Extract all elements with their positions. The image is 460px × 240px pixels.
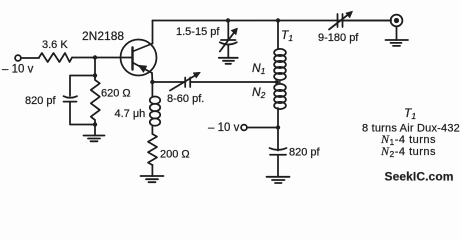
ground under 200	[151, 165, 153, 176]
wire cap to bottom	[70, 102, 95, 125]
ground under 620	[94, 125, 96, 135]
branch 1.5-15pf from rail	[227, 21, 229, 40]
inductor 4.7uh	[150, 97, 160, 126]
capacitor 820pf left	[64, 96, 78, 101]
wire branch to 820pf	[70, 76, 95, 97]
wire output to ground	[396, 26, 398, 40]
wire 820pf to ground	[277, 155, 279, 177]
output terminal	[391, 15, 403, 27]
wire inductor to 200ohm	[151, 126, 153, 134]
node branch junction	[93, 73, 97, 77]
capacitor 8-60pf	[185, 78, 190, 88]
transformer T1 stem top	[277, 21, 279, 50]
ground under 1.5-15pf	[219, 58, 238, 64]
svg-text:820 pf: 820 pf	[25, 95, 57, 107]
capacitor 820pf right	[270, 148, 287, 150]
svg-text:4.7 μh: 4.7 μh	[115, 108, 146, 120]
wire to -10v terminal	[247, 127, 278, 129]
wire 1.5-15pf to ground	[227, 45, 229, 58]
collector wire up	[152, 21, 154, 44]
top rail	[153, 20, 392, 22]
node bottom join	[93, 122, 97, 126]
resistor 620 ohm	[91, 76, 100, 126]
ground under output	[386, 40, 409, 46]
resistor 200 ohm	[148, 134, 157, 165]
arrow 1.5-15pf	[220, 32, 235, 52]
arrow 8-60pf	[170, 75, 197, 91]
svg-text:– 10 v: – 10 v	[208, 122, 240, 134]
svg-text:8-60 pf.: 8-60 pf.	[167, 93, 204, 105]
wire emitter node down to inductor	[151, 82, 153, 97]
resistor 3.6K	[39, 53, 72, 62]
node coil tap	[275, 80, 279, 84]
transistor Q1 2N2188	[121, 40, 157, 76]
emitter arrow	[138, 65, 147, 72]
svg-text:1.5-15 pf: 1.5-15 pf	[176, 26, 220, 38]
svg-text:8 turns Air Dux-432: 8 turns Air Dux-432	[362, 123, 460, 135]
arrow 9-180pf	[329, 14, 350, 30]
svg-text:2N2188: 2N2188	[82, 29, 124, 43]
terminal -10v right	[241, 125, 247, 131]
stem N2 down	[277, 108, 279, 128]
svg-text:SeekIC.com: SeekIC.com	[385, 170, 454, 184]
svg-text:200 Ω: 200 Ω	[160, 149, 190, 161]
wire node A down	[94, 58, 96, 79]
terminal -10v left	[15, 55, 21, 61]
wire 9-180pf to output	[343, 20, 392, 22]
capacitor 9-180pf	[338, 14, 343, 27]
winding N1	[274, 49, 286, 80]
wire junction to 820pf	[277, 128, 279, 151]
svg-text:3.6 K: 3.6 K	[42, 39, 68, 51]
node base junction	[93, 55, 97, 59]
wire terminal to resistor	[21, 57, 39, 59]
node -10v junction	[276, 125, 280, 129]
wire resistor to base node	[72, 57, 133, 59]
svg-text:– 10 v: – 10 v	[2, 64, 34, 76]
svg-text:620 Ω: 620 Ω	[101, 88, 131, 100]
wire 8-60pf to coil tap	[190, 81, 280, 83]
wire emitter node to 8-60pf	[152, 81, 185, 83]
emitter wire down	[151, 73, 153, 82]
node rail T1	[276, 18, 280, 22]
ground under 820pf	[267, 177, 290, 183]
svg-text:9-180 pf: 9-180 pf	[318, 32, 359, 44]
svg-text:820 pf: 820 pf	[289, 147, 321, 159]
capacitor 1.5-15pf	[221, 39, 236, 41]
svg-text:N2-4 turns: N2-4 turns	[380, 144, 436, 159]
winding N2	[274, 84, 286, 109]
node emitter junction	[150, 80, 154, 84]
node rail 1.5-15pf	[226, 18, 230, 22]
